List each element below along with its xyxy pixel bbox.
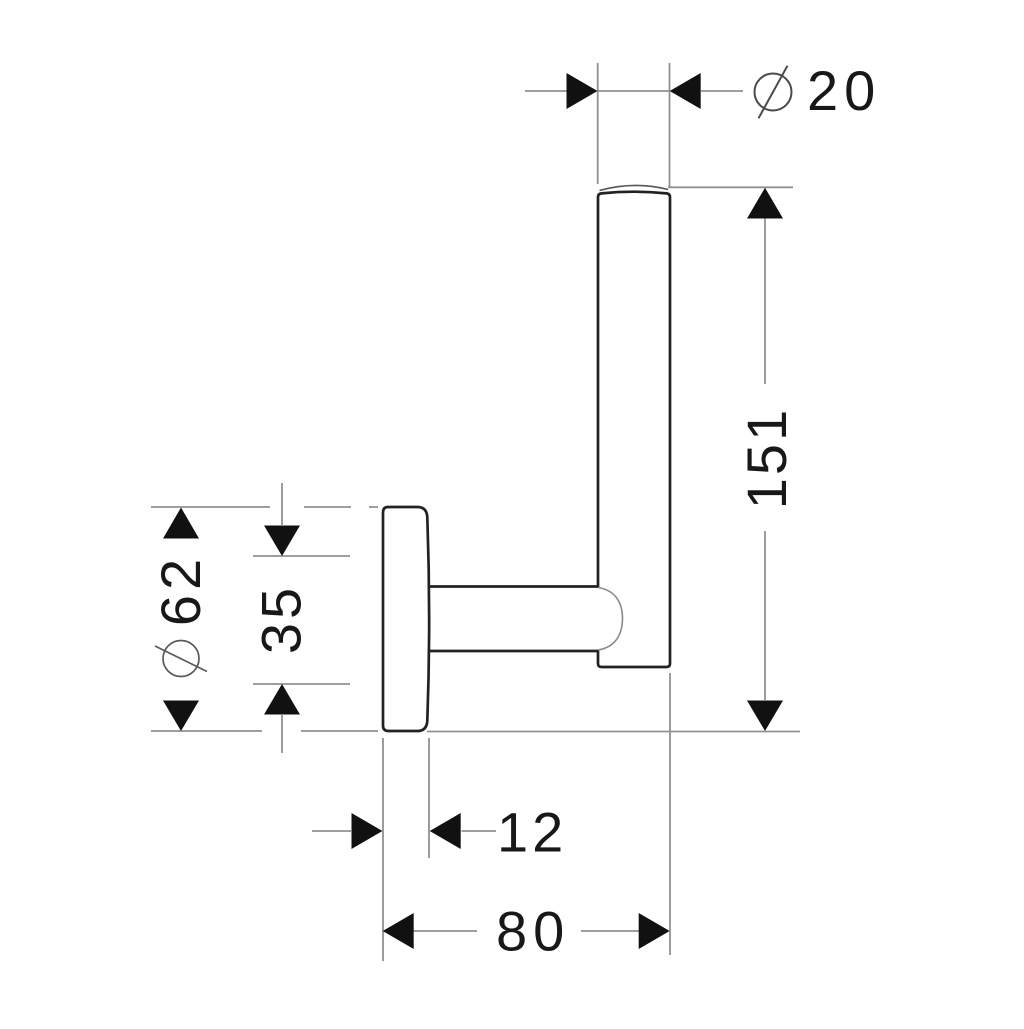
- dim Ø20 left arrow: [567, 73, 598, 109]
- arm end bulge (hidden rounded end inside tube): [598, 588, 623, 651]
- dim 151 down arrow: [747, 701, 783, 732]
- dim 35 bottom arrow (up): [264, 684, 300, 715]
- dim 35 reference line top: [253, 555, 350, 557]
- svg-text:80: 80: [496, 900, 570, 963]
- svg-text:20: 20: [807, 59, 881, 122]
- dim 12 extension line right (from plate dome): [428, 738, 430, 858]
- arm bottom edge: [430, 650, 598, 653]
- dim Ø20 right arrow: [670, 73, 701, 109]
- dim 12 left arrow (points right): [352, 813, 383, 849]
- dim 151 dimension line segments: [764, 218, 766, 700]
- dim 80 extension line right (from tube): [669, 673, 671, 955]
- dim Ø20 diameter symbol: [755, 66, 792, 119]
- tube top cap thin arc: [600, 185, 669, 190]
- svg-text:151: 151: [735, 407, 798, 509]
- dim Ø20 dimension line segments: [525, 90, 743, 92]
- wall plate outline (side view with dome): [383, 507, 429, 731]
- dim 151 extension line top: [668, 186, 793, 188]
- svg-text:35: 35: [250, 584, 313, 654]
- dim 80 left arrow (points left): [383, 913, 414, 949]
- dim 35 top arrow tail: [281, 483, 283, 525]
- dim Ø62 down arrow: [163, 701, 199, 732]
- svg-text:12: 12: [497, 801, 567, 864]
- dim Ø62 extension line bottom segments: [151, 730, 378, 732]
- tube outline (vertical cylinder body): [598, 192, 670, 667]
- svg-text:62: 62: [149, 554, 212, 626]
- dim 151 up arrow: [747, 188, 783, 219]
- dim 12 extension line left (from plate left): [382, 738, 384, 961]
- dim 35 bottom arrow tail: [281, 715, 283, 753]
- dim Ø20 extension line right: [669, 63, 671, 187]
- dim 12 right arrow (points left): [430, 813, 461, 849]
- dim 151 extension line bottom: [427, 731, 800, 733]
- dim Ø62 up arrow: [163, 508, 199, 539]
- dim Ø62 extension line top segments: [151, 506, 378, 508]
- dim Ø20 extension line left: [597, 63, 599, 184]
- dim 35 top arrow (down): [264, 526, 300, 557]
- dim Ø62 diameter symbol (rotated): [155, 641, 207, 677]
- dim 80 right arrow (points right): [639, 913, 670, 949]
- dim 35 reference line bottom: [253, 683, 350, 685]
- dim 12 dimension line segments: [312, 830, 496, 832]
- dim 80 dimension line segments: [414, 930, 640, 932]
- arm top edge: [429, 585, 598, 588]
